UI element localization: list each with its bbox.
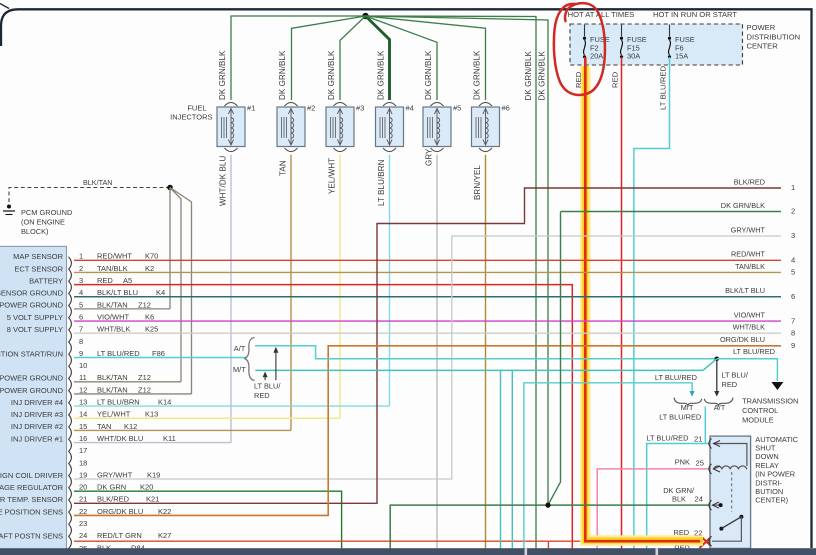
- svg-text:INJ DRIVER #2: INJ DRIVER #2: [11, 422, 63, 431]
- arrow transmission control module: [771, 382, 783, 390]
- svg-text:21: 21: [694, 435, 702, 444]
- svg-text:VIO/WHT: VIO/WHT: [734, 310, 766, 319]
- wire LT BLU/RED to M/T arrow: [524, 383, 692, 549]
- svg-text:LT BLU/RED: LT BLU/RED: [659, 412, 701, 421]
- svg-text:ECT SENSOR: ECT SENSOR: [14, 264, 63, 273]
- svg-text:BLK/TAN: BLK/TAN: [97, 373, 128, 382]
- svg-text:K13: K13: [145, 410, 158, 419]
- svg-text:6: 6: [79, 312, 83, 321]
- svg-text:15: 15: [79, 422, 87, 431]
- svg-text:WHT/DK BLU: WHT/DK BLU: [97, 434, 143, 443]
- svg-text:11: 11: [79, 373, 87, 382]
- svg-text:PNK: PNK: [675, 458, 690, 467]
- svg-text:3: 3: [791, 231, 795, 240]
- svg-text:K2: K2: [145, 264, 154, 273]
- svg-text:5: 5: [791, 268, 795, 277]
- svg-text:IGNITION START/RUN: IGNITION START/RUN: [0, 349, 63, 358]
- svg-text:RED: RED: [254, 391, 270, 400]
- svg-text:BATTERY: BATTERY: [29, 276, 63, 285]
- wire RED A5 pin3: [74, 285, 572, 549]
- wire BLK/LT BLU pin4 to right pin6: [74, 296, 781, 298]
- fuel injector #3: [334, 102, 347, 106]
- svg-text:K20: K20: [140, 483, 153, 492]
- svg-text:RED/WHT: RED/WHT: [97, 252, 132, 261]
- wire DK GRN/BLK right branch 2: [366, 16, 549, 505]
- svg-text:2: 2: [79, 264, 83, 273]
- svg-text:#6: #6: [502, 104, 510, 113]
- relay coil-switch dashed link: [731, 472, 733, 512]
- svg-text:8: 8: [791, 328, 795, 337]
- svg-text:LT BLU/RED: LT BLU/RED: [659, 65, 668, 110]
- svg-text:12: 12: [79, 385, 87, 394]
- svg-text:WHT/BLK: WHT/BLK: [733, 323, 766, 332]
- svg-text:24: 24: [695, 495, 703, 504]
- wire DK GRN/BLK pin2 vertical: [548, 212, 561, 506]
- svg-text:K25: K25: [145, 325, 158, 334]
- svg-text:K70: K70: [145, 252, 158, 261]
- wire RED/LT GRN pin24: [74, 540, 583, 542]
- svg-text:TAN: TAN: [97, 422, 111, 431]
- wire LT BLU/RED from fuse F6: [634, 57, 670, 549]
- svg-text:DK GRN/BLK: DK GRN/BLK: [218, 50, 227, 100]
- svg-text:20: 20: [79, 483, 87, 492]
- svg-text:IGN COIL DRIVER: IGN COIL DRIVER: [0, 471, 64, 480]
- svg-text:TAN/BLK: TAN/BLK: [735, 262, 765, 271]
- wire DK GRN pin20: [74, 491, 342, 549]
- svg-text:2: 2: [791, 207, 795, 216]
- svg-text:WHT/BLK: WHT/BLK: [97, 325, 130, 334]
- svg-text:M/T: M/T: [233, 365, 246, 374]
- brace A/T-M/T selector: [245, 338, 255, 381]
- brace M/T TCM: [674, 398, 702, 407]
- svg-text:LT BLU/RED: LT BLU/RED: [97, 349, 140, 358]
- wire DK GRN/BLK to injector #4 (bold): [366, 16, 390, 100]
- svg-text:WATER TEMP. SENSOR: WATER TEMP. SENSOR: [0, 495, 64, 504]
- wire BLK/TAN pin12: [74, 393, 192, 395]
- ground symbol PCM: [7, 205, 11, 209]
- svg-text:7: 7: [79, 325, 83, 334]
- svg-text:RED: RED: [97, 276, 113, 285]
- svg-text:19: 19: [79, 470, 87, 479]
- wire LT BLU/BRN injector #4 bottom: [389, 155, 391, 406]
- highlight band (yellow marker) on RED wire vertical: [580, 66, 591, 530]
- svg-text:DK GRN: DK GRN: [97, 483, 126, 492]
- svg-text:LT BLU/: LT BLU/: [722, 371, 749, 380]
- svg-text:K19: K19: [147, 470, 160, 479]
- wire VIO/WHT pin6 to right pin7: [74, 320, 781, 322]
- svg-text:18: 18: [79, 458, 87, 467]
- wire DK GRN/BLK to injector #3: [340, 16, 366, 100]
- wire BLK/RED pin21 to right pin1: [74, 188, 781, 503]
- svg-text:DISTRIBUTION: DISTRIBUTION: [747, 32, 801, 41]
- svg-text:TAN/BLK: TAN/BLK: [97, 264, 128, 273]
- svg-text:21: 21: [79, 495, 87, 504]
- svg-text:TRANSMISSION: TRANSMISSION: [742, 397, 798, 406]
- svg-text:THROTTLE POSITION SENS: THROTTLE POSITION SENS: [0, 507, 63, 516]
- svg-text:10: 10: [79, 361, 87, 370]
- svg-text:A/T: A/T: [234, 344, 246, 353]
- svg-text:4: 4: [79, 288, 83, 297]
- svg-text:DK GRN/BLK: DK GRN/BLK: [524, 50, 533, 100]
- svg-text:MODULE: MODULE: [742, 416, 774, 425]
- svg-text:8 VOLT SUPPLY: 8 VOLT SUPPLY: [7, 325, 63, 334]
- wire TAN injector #2 bottom: [290, 155, 292, 431]
- svg-text:SHUT: SHUT: [755, 444, 776, 453]
- svg-text:FUEL: FUEL: [187, 104, 206, 113]
- svg-text:RED: RED: [574, 71, 583, 88]
- svg-text:M/T: M/T: [681, 403, 694, 412]
- power distribution center box: [570, 24, 743, 65]
- wire ORG/DK BLU pin22 to right pin9: [74, 346, 781, 516]
- svg-text:POWER GROUND: POWER GROUND: [0, 301, 64, 310]
- fuse F2: [584, 25, 586, 37]
- svg-text:4: 4: [791, 256, 795, 265]
- fuel injector #1: [225, 102, 238, 106]
- fuse F6: [669, 25, 671, 37]
- svg-text:7: 7: [791, 316, 795, 325]
- svg-text:POWER: POWER: [747, 23, 776, 32]
- svg-text:BRN/YEL: BRN/YEL: [473, 165, 482, 200]
- svg-text:5 VOLT SUPPLY: 5 VOLT SUPPLY: [7, 313, 63, 322]
- svg-text:K22: K22: [158, 507, 171, 516]
- relay switch arm: [739, 515, 743, 519]
- svg-text:BLK/LT BLU: BLK/LT BLU: [725, 286, 765, 295]
- wire LT BLU/RED M/T branch: [255, 369, 703, 371]
- wire DK GRN/BLK to injector #1: [231, 16, 366, 100]
- svg-text:K12: K12: [124, 422, 137, 431]
- svg-text:RED/WHT: RED/WHT: [731, 250, 766, 259]
- svg-text:INJ DRIVER #3: INJ DRIVER #3: [11, 410, 63, 419]
- wire RED/WHT pin1 to right pin4: [74, 259, 781, 261]
- svg-text:MAP SENSOR: MAP SENSOR: [13, 252, 63, 261]
- svg-text:LT BLU/RED: LT BLU/RED: [733, 347, 775, 356]
- svg-text:CENTER): CENTER): [755, 496, 788, 505]
- svg-text:9: 9: [791, 341, 795, 350]
- svg-text:BUTION: BUTION: [755, 487, 783, 496]
- svg-text:9: 9: [79, 349, 83, 358]
- svg-text:Z12: Z12: [138, 300, 151, 309]
- svg-text:POWER GROUND: POWER GROUND: [0, 374, 64, 383]
- svg-text:17: 17: [79, 446, 87, 455]
- svg-text:DK GRN/BLK: DK GRN/BLK: [721, 201, 765, 210]
- wire DK GRN/BLK right branch 1: [366, 16, 537, 549]
- svg-text:23: 23: [79, 519, 87, 528]
- wire GRY/WHT pin19 to right pin3: [74, 236, 781, 479]
- svg-text:POWER GROUND: POWER GROUND: [0, 386, 64, 395]
- wire BLK/TAN pin5: [74, 308, 170, 310]
- svg-text:F86: F86: [152, 349, 165, 358]
- arrow RED wire into relay pin22: [700, 535, 711, 548]
- svg-text:ORG/DK BLU: ORG/DK BLU: [97, 507, 143, 516]
- svg-text:PCM GROUND: PCM GROUND: [21, 208, 72, 217]
- svg-text:BLK/RED: BLK/RED: [97, 495, 130, 504]
- PCM connector box: [0, 246, 67, 555]
- fuel injector #5: [431, 102, 444, 106]
- PCM connector pins and labels: [69, 257, 72, 270]
- svg-text:DK GRN/BLK: DK GRN/BLK: [278, 50, 287, 100]
- wire BLK/TAN down to pin 12: [170, 188, 192, 395]
- wire LT BLU/RED A/T branch: [255, 346, 715, 359]
- svg-text:LT BLU/BRN: LT BLU/BRN: [97, 398, 140, 407]
- wire BLK/TAN down to pin 11: [170, 188, 181, 382]
- svg-text:#4: #4: [406, 104, 414, 113]
- wire LT BLU/RED pin9 to brace: [74, 357, 247, 359]
- svg-text:BLK/TAN: BLK/TAN: [97, 300, 128, 309]
- svg-text:RED: RED: [722, 380, 738, 389]
- svg-text:RED: RED: [611, 71, 620, 88]
- wire YEL/WHT pin14 to injector #3: [74, 417, 340, 419]
- svg-text:3: 3: [79, 276, 83, 285]
- svg-text:22: 22: [79, 507, 87, 516]
- svg-text:(IN POWER: (IN POWER: [755, 470, 795, 479]
- wire LT BLU/RED vertical 2 to bottom: [511, 370, 513, 549]
- svg-text:YEL/WHT: YEL/WHT: [97, 410, 131, 419]
- wire BLK/TAN pin11: [74, 381, 181, 383]
- svg-text:K11: K11: [163, 434, 176, 443]
- svg-text:TAN: TAN: [279, 160, 288, 176]
- fuel injector #4: [383, 102, 396, 106]
- svg-text:WHT/DK BLU: WHT/DK BLU: [219, 156, 228, 206]
- wire BLK/TAN down to pin 5: [169, 188, 171, 309]
- wire DK GRN/BLK right pin2: [561, 211, 782, 213]
- svg-text:BLOCK): BLOCK): [21, 227, 49, 236]
- svg-text:Z12: Z12: [138, 385, 151, 394]
- svg-text:DOWN: DOWN: [755, 452, 778, 461]
- wire WHT/DK BLU pin16 to injector #1: [74, 442, 231, 444]
- node TCM junction: [715, 357, 720, 362]
- fuel injector #2: [285, 102, 298, 106]
- svg-text:8: 8: [79, 337, 83, 346]
- svg-text:15A: 15A: [675, 52, 688, 61]
- wire LT BLU/RED vertical 1 to bottom: [500, 370, 502, 549]
- svg-text:5: 5: [79, 300, 83, 309]
- relay pin connector arcs: [709, 439, 712, 449]
- svg-text:RELAY: RELAY: [755, 461, 779, 470]
- fuel injector #6: [479, 102, 492, 106]
- svg-text:GRY/WHT: GRY/WHT: [97, 470, 133, 479]
- svg-text:LT BLU/BRN: LT BLU/BRN: [377, 159, 386, 206]
- relay coil circuit: [713, 444, 747, 467]
- wire YEL/WHT injector #3 bottom: [339, 155, 341, 419]
- svg-text:K21: K21: [146, 495, 159, 504]
- svg-text:BLK/RED: BLK/RED: [734, 177, 765, 186]
- svg-text:LT BLU/RED: LT BLU/RED: [655, 373, 697, 382]
- wire LT BLU/RED down arrow to A/T brace: [716, 360, 718, 392]
- svg-text:BLK/TAN: BLK/TAN: [83, 178, 112, 187]
- svg-text:YEL/WHT: YEL/WHT: [328, 158, 337, 194]
- brace A/T TCM: [704, 398, 733, 407]
- wire WHT/DK BLU injector #1 bottom: [230, 155, 232, 443]
- wire TAN/BLK pin2 to right pin5: [74, 271, 781, 273]
- svg-text:#3: #3: [356, 104, 364, 113]
- svg-text:K4: K4: [156, 288, 165, 297]
- wire BRN/YEL injector #6 bottom: [485, 155, 487, 549]
- svg-text:16: 16: [79, 434, 87, 443]
- svg-text:(ON ENGINE: (ON ENGINE: [21, 218, 65, 227]
- wire LT BLU/RED to relay pin21: [647, 444, 709, 550]
- svg-text:CENTER: CENTER: [747, 42, 779, 51]
- svg-text:A5: A5: [123, 276, 132, 285]
- node splice junction (injector feed): [362, 13, 368, 19]
- svg-text:13: 13: [79, 398, 87, 407]
- svg-text:CRANKSHAFT POSTN SENS: CRANKSHAFT POSTN SENS: [0, 532, 63, 541]
- automatic shut down relay box: [710, 436, 751, 548]
- wire DK GRN/BLK to injector #5: [366, 16, 438, 100]
- wire LT BLU/RED to TCM arrow: [717, 359, 778, 381]
- wire PNK to relay pin25: [597, 469, 709, 549]
- wire WHT/BLK pin7 to right pin8: [74, 332, 781, 334]
- svg-text:GRY/WHT: GRY/WHT: [731, 225, 766, 234]
- svg-text:DK GRN/BLK: DK GRN/BLK: [473, 50, 482, 100]
- svg-text:INJ DRIVER #4: INJ DRIVER #4: [11, 398, 63, 407]
- node splice on relay pin24 wire: [545, 503, 550, 508]
- wire RED from fuse F2 (highlighted, upper part): [584, 57, 587, 530]
- svg-text:SENSOR GROUND: SENSOR GROUND: [0, 289, 64, 298]
- svg-text:GRY: GRY: [425, 148, 434, 166]
- svg-text:LT BLU/: LT BLU/: [254, 382, 281, 391]
- wire LT BLU/BRN pin13 to injector #4: [74, 405, 390, 407]
- svg-text:30A: 30A: [627, 52, 640, 61]
- svg-text:K6: K6: [145, 312, 154, 321]
- svg-text:25: 25: [696, 459, 704, 468]
- svg-text:INJ DRIVER #1: INJ DRIVER #1: [11, 434, 63, 443]
- svg-text:INJECTORS: INJECTORS: [170, 113, 212, 122]
- svg-text:K27: K27: [158, 531, 171, 540]
- svg-text:ORG/DK BLU: ORG/DK BLU: [720, 335, 765, 344]
- svg-text:VOLTAGE REGULATOR: VOLTAGE REGULATOR: [0, 483, 64, 492]
- wire BLK/TAN dashed to PCM ground: [9, 188, 170, 203]
- svg-text:DK GRN/BLK: DK GRN/BLK: [327, 50, 336, 100]
- svg-text:CONTROL: CONTROL: [742, 406, 778, 415]
- svg-text:24: 24: [79, 531, 87, 540]
- svg-text:#1: #1: [247, 104, 255, 113]
- wire DK GRN/BLK to injector #2: [292, 16, 366, 100]
- wire RED highlighted corner to relay pin22: [585, 526, 700, 541]
- svg-text:DK GRN/BLK: DK GRN/BLK: [424, 50, 433, 100]
- svg-text:DK GRN/BLK: DK GRN/BLK: [377, 50, 386, 100]
- svg-text:VIO/WHT: VIO/WHT: [97, 312, 129, 321]
- wire DK GRN/BLK to relay pin24: [390, 505, 709, 549]
- arrow up to M/T wire: [264, 376, 266, 381]
- arrow up to A/T wire: [275, 350, 277, 380]
- highlight band (yellow marker) on RED wire corner: [585, 528, 703, 541]
- svg-text:LT BLU/RED: LT BLU/RED: [646, 434, 688, 443]
- svg-text:BLK/LT BLU: BLK/LT BLU: [97, 288, 138, 297]
- svg-text:A/T: A/T: [714, 403, 726, 412]
- svg-text:#5: #5: [453, 104, 461, 113]
- red hand-drawn annotation circle around fuse F2: [554, 3, 605, 95]
- svg-text:14: 14: [79, 410, 87, 419]
- wire GRY injector #5 bottom: [436, 155, 438, 549]
- wire diag M/T join: [703, 359, 717, 371]
- svg-text:DISTRI-: DISTRI-: [755, 478, 782, 487]
- svg-text:6: 6: [791, 292, 795, 301]
- wire TAN pin15 to injector #2: [74, 429, 291, 431]
- wire RED from fuse F15: [621, 57, 623, 549]
- fuse F15: [621, 25, 623, 37]
- svg-text:Z12: Z12: [138, 373, 151, 382]
- svg-text:1: 1: [791, 183, 795, 192]
- svg-text:BLK: BLK: [672, 495, 686, 504]
- svg-text:BLK/TAN: BLK/TAN: [97, 385, 128, 394]
- node splice BLK/TAN: [167, 185, 173, 191]
- wire DK GRN/BLK to injector #6: [366, 16, 486, 100]
- relay pin24 contact: [712, 504, 721, 506]
- svg-text:#2: #2: [307, 104, 315, 113]
- svg-text:HOT IN RUN OR START: HOT IN RUN OR START: [653, 10, 737, 19]
- svg-text:K14: K14: [158, 398, 171, 407]
- svg-text:AUTOMATIC: AUTOMATIC: [755, 435, 799, 444]
- wire LT BLU/RED A/T output: [704, 407, 706, 444]
- svg-text:DK GRN/BLK: DK GRN/BLK: [537, 50, 546, 100]
- svg-text:20A: 20A: [590, 52, 603, 61]
- svg-text:1: 1: [79, 252, 83, 261]
- bottom scrollbar: [0, 548, 816, 555]
- svg-text:RED/LT GRN: RED/LT GRN: [97, 531, 142, 540]
